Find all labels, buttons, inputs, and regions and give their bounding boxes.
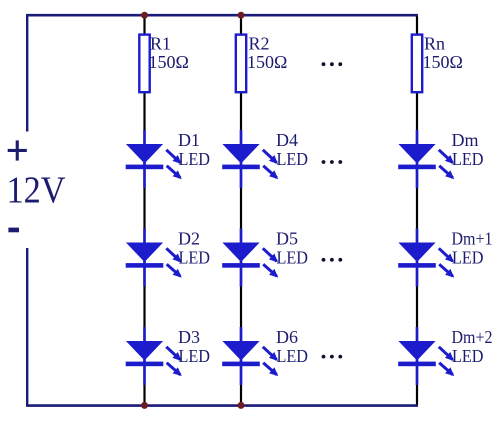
svg-text:150Ω: 150Ω [149, 52, 189, 72]
supply polarity label - [8, 228, 19, 233]
LED D1 (diode symbol with emission arrows) [126, 130, 181, 188]
svg-text:D6: D6 [276, 327, 298, 347]
svg-text:LED: LED [179, 346, 211, 366]
svg-text:R1: R1 [150, 34, 171, 54]
svg-text:LED: LED [179, 248, 211, 268]
LED D5 (diode symbol with emission arrows) [222, 229, 277, 287]
svg-text:LED: LED [277, 248, 309, 268]
LED Dm (diode symbol with emission arrows) [398, 130, 453, 188]
svg-text:D4: D4 [276, 130, 298, 150]
LED D2 (diode symbol with emission arrows) [126, 229, 181, 287]
supply polarity label + [8, 140, 27, 160]
ellipsis dots (LED row 1) [322, 160, 343, 164]
junction node at bottom bus x=144.5 [141, 402, 148, 409]
resistor R2 150ohm [236, 35, 246, 93]
junction node at top bus x=241 [238, 12, 245, 19]
wire: vertical branch 1 (R1/D1-D3) [143, 17, 145, 405]
wire: left supply lead upper segment [26, 14, 28, 132]
svg-text:12V: 12V [7, 170, 66, 212]
LED D4 (diode symbol with emission arrows) [222, 130, 277, 188]
LED Dm+1 (diode symbol with emission arrows) [398, 229, 453, 287]
svg-text:LED: LED [179, 149, 211, 169]
ellipsis dots (LED row 2) [322, 258, 343, 262]
svg-text:150Ω: 150Ω [423, 52, 463, 72]
svg-text:Dm+2: Dm+2 [452, 327, 493, 347]
ellipsis dots (between R2 and Rn) [322, 62, 343, 66]
svg-text:LED: LED [452, 248, 484, 268]
svg-text:Dm+1: Dm+1 [452, 229, 493, 249]
svg-text:D2: D2 [178, 229, 200, 249]
svg-text:D1: D1 [178, 130, 200, 150]
resistor Rn 150ohm [412, 35, 422, 93]
wire: bottom return bus [26, 404, 418, 407]
junction node at bottom bus x=241 [238, 402, 245, 409]
svg-text:R2: R2 [249, 34, 270, 54]
svg-text:Dm: Dm [452, 130, 479, 150]
svg-text:150Ω: 150Ω [247, 52, 287, 72]
svg-text:D3: D3 [178, 327, 200, 347]
LED D6 (diode symbol with emission arrows) [222, 327, 277, 385]
svg-text:LED: LED [277, 346, 309, 366]
wire: vertical branch 2 (R2/D4-D6) [240, 17, 242, 405]
wire: vertical branch n (Rn/Dm..) [416, 17, 418, 405]
LED D3 (diode symbol with emission arrows) [126, 327, 181, 385]
wire: left supply lead lower segment [26, 248, 28, 406]
resistor R1 150ohm [139, 35, 149, 93]
junction node at top bus x=144.5 [141, 12, 148, 19]
svg-text:LED: LED [277, 149, 309, 169]
svg-text:LED: LED [452, 346, 484, 366]
wire: top bus from supply + to branches [26, 14, 418, 17]
svg-text:D5: D5 [276, 229, 298, 249]
svg-text:LED: LED [452, 149, 484, 169]
svg-text:Rn: Rn [424, 34, 445, 54]
LED Dm+2 (diode symbol with emission arrows) [398, 327, 453, 385]
ellipsis dots (LED row 3) [322, 355, 343, 359]
